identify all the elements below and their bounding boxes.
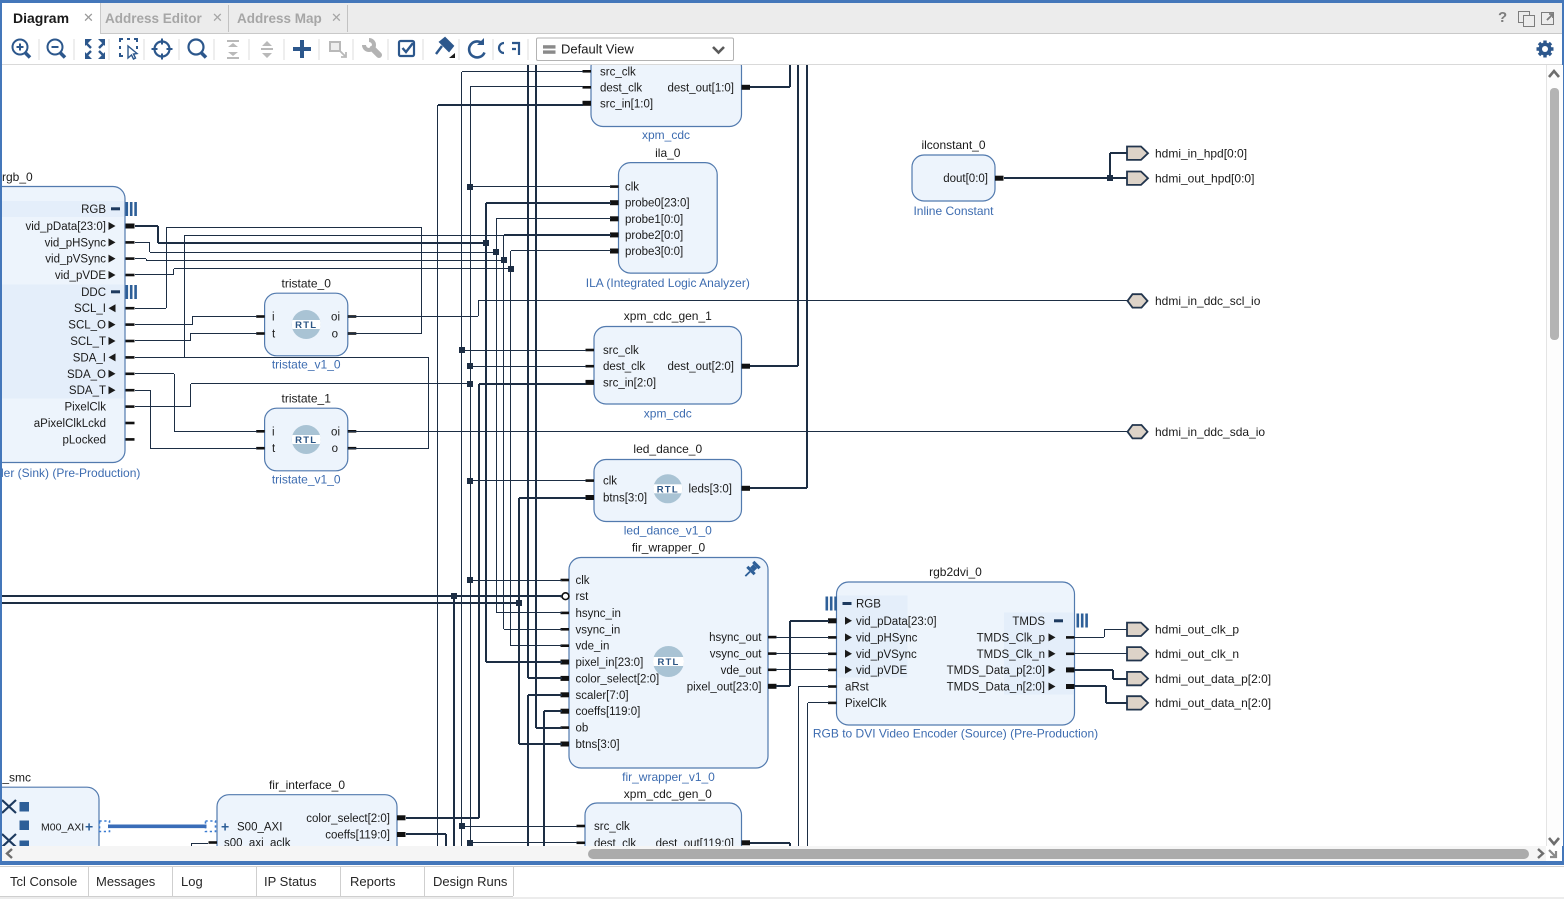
svg-text:src_in[1:0]: src_in[1:0] [600, 98, 653, 110]
svg-text:TMDS_Clk_n: TMDS_Clk_n [977, 649, 1045, 661]
net vsync_out -> vid_pVSync [776, 653, 829, 655]
svg-text:scaler[7:0]: scaler[7:0] [576, 690, 629, 702]
toolbar: zoom fit [85, 39, 105, 59]
net rst (horizontal from left) [0, 595, 562, 597]
svg-text:tristate_0: tristate_0 [282, 277, 332, 291]
tab Address Editor [105, 11, 202, 26]
svg-text:oi: oi [331, 426, 340, 438]
svg-text:vid_pVSync: vid_pVSync [45, 254, 106, 266]
svg-text:btns[3:0]: btns[3:0] [603, 493, 647, 505]
rgb2dvi_0 RGB expander [826, 597, 837, 611]
svg-text:2rgb_0: 2rgb_0 [2, 170, 33, 184]
svg-text:clk: clk [576, 575, 590, 587]
fir_wrapper_0 pin icon [742, 560, 762, 580]
junction pHSync [493, 249, 499, 255]
junction pData [483, 240, 489, 246]
svg-text:vid_pHSync: vid_pHSync [45, 237, 107, 249]
svg-text:btns[3:0]: btns[3:0] [576, 739, 620, 751]
net vid_pVDE / probe3 / vde_in [135, 274, 174, 276]
toolbar: customize (wrench) [361, 37, 379, 55]
junction PixelClk/dest_clk gen1 [467, 363, 473, 369]
net TMDS_Data_n -> hdmi_out_data_n [1074, 685, 1106, 687]
panel frame (blue focus border) [0, 0, 1564, 3]
net TMDS_Clk_p -> hdmi_out_clk_p [1074, 637, 1104, 639]
svg-text:SCL_O: SCL_O [68, 320, 106, 332]
net coeffs input (x544.5) [543, 711, 545, 846]
svg-text:xpm_cdc_gen_1: xpm_cdc_gen_1 [624, 309, 712, 323]
dvi2rgb_0 RGB expander [126, 202, 137, 216]
svg-text:RGB: RGB [856, 599, 881, 611]
port hdmi_in_hpd[0:0] [1127, 147, 1148, 160]
svg-text:dest_clk: dest_clk [600, 82, 642, 94]
shading band DDC group (dvi2rgb_0) [0, 285, 124, 399]
block rgb2dvi_0 [837, 582, 1075, 725]
net dest_out[1:0] (top xpm_cdc) [750, 86, 790, 88]
svg-text:RTL: RTL [295, 320, 317, 331]
svg-text:vid_pVDE: vid_pVDE [55, 270, 106, 282]
block dvi2rgb_0 [0, 187, 125, 463]
svg-text:coeffs[119:0]: coeffs[119:0] [325, 830, 390, 842]
svg-text:hdmi_out_data_p[2:0]: hdmi_out_data_p[2:0] [1155, 672, 1271, 686]
svg-text:tristate_v1_0: tristate_v1_0 [272, 358, 341, 372]
junction btns [516, 600, 522, 606]
svg-text:TMDS_Clk_p: TMDS_Clk_p [977, 632, 1045, 644]
svg-text:xpm_cdc_gen_0: xpm_cdc_gen_0 [624, 787, 712, 801]
svg-text:RGB to DVI Video Encoder (Sour: RGB to DVI Video Encoder (Source) (Pre-P… [813, 727, 1098, 741]
net rgb2dvi PixelClk (from bottom x807.5) [807, 703, 809, 846]
svg-text:tristate_1: tristate_1 [282, 392, 332, 406]
svg-text:rst: rst [576, 591, 590, 603]
net dest_out[2:0] (xpm_cdc_gen_1) up x798 [750, 365, 798, 367]
svg-text:vde_in: vde_in [576, 641, 610, 653]
svg-text:leds[3:0]: leds[3:0] [689, 483, 732, 495]
svg-text:color_select[2:0]: color_select[2:0] [306, 813, 390, 825]
svg-text:S00_AXI: S00_AXI [237, 821, 282, 833]
svg-text:SDA_T: SDA_T [69, 385, 106, 397]
svg-text:i: i [272, 426, 275, 438]
net SDA_T -> tristate_1 t [135, 390, 150, 392]
net hsync_out -> vid_pHSync [776, 637, 829, 639]
shading band TMDS group (rgb2dvi_0) [1004, 613, 1074, 695]
net hdmi_in_ddc_scl_io (tristate_0 oi) [348, 316, 478, 318]
net PixelClk (vertical x470.2) [470, 86, 472, 846]
dvi2rgb_0 DDC expander [126, 285, 137, 299]
svg-text:xpm_cdc: xpm_cdc [642, 128, 690, 142]
svg-text:rgb2dvi_0: rgb2dvi_0 [929, 565, 982, 579]
net color_select (fir_interface -> xpm_cdc_gen_1 src_in[2:0]) [406, 817, 479, 819]
svg-text:+: + [85, 819, 93, 835]
block xpm_cdc_gen_0 [585, 803, 742, 863]
svg-text:PixelClk: PixelClk [845, 698, 887, 710]
net SCL_T -> tristate_0 t [135, 340, 190, 342]
net hdmi_in_ddc_sda_io (tristate_1 oi) [348, 431, 1129, 433]
svg-text:probe3[0:0]: probe3[0:0] [625, 246, 683, 258]
svg-text:dest_out[2:0]: dest_out[2:0] [668, 361, 735, 373]
tab Address Map [237, 11, 322, 26]
svg-text:Default View: Default View [561, 42, 634, 57]
window icons top-right [1498, 9, 1507, 26]
toolbar: autofit/target [152, 39, 173, 60]
net coeffs output (fir_interface) [406, 833, 446, 835]
svg-text:dout[0:0]: dout[0:0] [943, 173, 988, 185]
toolbar: pin [436, 38, 455, 58]
block ilconstant_0 [912, 155, 995, 201]
net vid_pVSync / probe2 / vsync_in [135, 258, 146, 260]
net TMDS_Data_p -> hdmi_out_data_p [1074, 669, 1113, 671]
net src_in[1:0] vertical x437.5 [437, 105, 439, 846]
net ob (x536.5) [535, 65, 537, 728]
M00_AXI collapsed pin box [100, 821, 110, 832]
svg-text:vid_pHSync: vid_pHSync [856, 632, 918, 644]
svg-text:tristate_v1_0: tristate_v1_0 [272, 473, 341, 487]
svg-text:src_in[2:0]: src_in[2:0] [603, 377, 656, 389]
port hdmi_in_ddc_scl_io [1128, 294, 1148, 307]
svg-text:hdmi_in_ddc_sda_io: hdmi_in_ddc_sda_io [1155, 425, 1265, 439]
toolbar: zoom in [13, 40, 31, 58]
svg-text:ila_0: ila_0 [655, 146, 681, 160]
junction PixelClk/ila clk [467, 184, 473, 190]
net vid_pData / probe0 / pixel_in (thick) [135, 225, 158, 227]
svg-text:src_clk: src_clk [603, 345, 639, 357]
resize grip [1546, 846, 1562, 861]
svg-text:TMDS_Data_n[2:0]: TMDS_Data_n[2:0] [947, 682, 1045, 694]
svg-text:SCL_I: SCL_I [74, 303, 106, 315]
led_dance_0 RTL icon [653, 474, 682, 503]
svg-text:clk: clk [625, 182, 639, 194]
toolbar: collapse (disabled) [227, 41, 239, 58]
port hdmi_out_clk_p [1127, 623, 1148, 636]
junction clk/src_clk gen1 [459, 347, 465, 353]
svg-text:i: i [272, 312, 275, 324]
svg-text:pixel_out[23:0]: pixel_out[23:0] [687, 681, 762, 693]
junction PixelClk/fir clk [467, 577, 473, 583]
tab strip [2, 3, 1562, 33]
toolbar: add IP (+) [293, 40, 311, 58]
net SCL_O -> tristate_0 i [135, 324, 192, 326]
net SDA_O -> tristate_1 i [135, 373, 174, 375]
block tristate_0 [265, 293, 348, 356]
port hdmi_out_hpd[0:0] [1127, 172, 1148, 185]
block xpm_cdc_gen_1 [594, 327, 742, 405]
svg-text:+: + [221, 819, 229, 835]
net dest_out[119:0] (xpm_cdc_gen_0) [750, 842, 790, 844]
svg-text:vid_pVSync: vid_pVSync [856, 649, 917, 661]
junction clk/src_clk gen0 [459, 823, 465, 829]
net vde_out -> vid_pVDE [776, 669, 829, 671]
net s00_axi_aclk [192, 843, 208, 845]
svg-text:hsync_in: hsync_in [576, 608, 621, 620]
svg-text:hsync_out: hsync_out [709, 632, 762, 644]
junction PixelClk/led clk [467, 478, 473, 484]
svg-text:hdmi_in_hpd[0:0]: hdmi_in_hpd[0:0] [1155, 146, 1247, 160]
svg-text:hdmi_out_data_n[2:0]: hdmi_out_data_n[2:0] [1155, 696, 1271, 710]
svg-text:RTL: RTL [657, 484, 679, 495]
net M00_AXI -> S00_AXI (AXI interface connection) [108, 824, 207, 828]
svg-text:vid_pVDE: vid_pVDE [856, 665, 907, 677]
svg-text:pixel_in[23:0]: pixel_in[23:0] [576, 657, 644, 669]
svg-text:led_dance_v1_0: led_dance_v1_0 [624, 524, 712, 538]
svg-text:clk: clk [603, 476, 617, 488]
fir_wrapper_0 RTL icon [653, 646, 684, 677]
svg-text:o: o [332, 329, 338, 341]
toolbar: zoom to selection [120, 39, 137, 59]
svg-text:probe1[0:0]: probe1[0:0] [625, 214, 683, 226]
junction pVSync [501, 257, 507, 263]
net aRst (from bottom x798) [798, 686, 800, 846]
svg-text:o: o [332, 443, 338, 455]
svg-text:xpm_cdc: xpm_cdc [644, 407, 692, 421]
net clk (vertical x461.6) [461, 72, 463, 846]
svg-text:SDA_O: SDA_O [67, 369, 106, 381]
toolbar: view dropdown [537, 38, 734, 61]
svg-text:s00_axi_aclk: s00_axi_aclk [224, 838, 291, 847]
junction hpd [1107, 175, 1113, 181]
svg-text:vid_pData[23:0]: vid_pData[23:0] [25, 221, 106, 233]
svg-text:hdmi_out_hpd[0:0]: hdmi_out_hpd[0:0] [1155, 171, 1254, 185]
port hdmi_out_data_p[2:0] [1127, 672, 1148, 685]
svg-text:pLocked: pLocked [63, 434, 106, 446]
toolbar: settings gear [1537, 41, 1554, 58]
net dout -> hdmi hpd ports [1004, 177, 1110, 179]
svg-text:SDA_I: SDA_I [73, 352, 106, 364]
svg-text:RGB: RGB [81, 204, 106, 216]
svg-text:fir_wrapper_0: fir_wrapper_0 [632, 541, 706, 555]
tristate_0 RTL icon [292, 310, 321, 339]
svg-text:ob: ob [576, 723, 589, 735]
block ila_0 [619, 163, 718, 274]
junction PixelClk horiz [467, 381, 473, 387]
svg-text:M00_AXI: M00_AXI [41, 821, 84, 833]
tristate_1 RTL icon [292, 425, 321, 454]
port hdmi_out_clk_n [1127, 647, 1148, 660]
net TMDS_Clk_n -> hdmi_out_clk_n [1074, 653, 1128, 655]
toolbar: run connection automation (disabled) [330, 42, 346, 57]
toolbar [2, 34, 1562, 65]
svg-text:oi: oi [331, 312, 340, 324]
svg-text:der (Sink) (Pre-Production): der (Sink) (Pre-Production) [2, 466, 140, 480]
svg-text:src_clk: src_clk [594, 821, 630, 833]
toolbar: expand (disabled) [261, 41, 273, 58]
net SCL loop (tristate_0 o -> SCL_I) [135, 308, 166, 310]
svg-text:TMDS_Data_p[2:0]: TMDS_Data_p[2:0] [947, 665, 1045, 677]
svg-text:coeffs[119:0]: coeffs[119:0] [576, 706, 641, 718]
net pixel_out -> vid_pData [776, 685, 790, 687]
svg-text:dest_out[1:0]: dest_out[1:0] [668, 82, 735, 94]
block fir_interface_0 [217, 795, 397, 865]
svg-text:ILA (Integrated Logic Analyzer: ILA (Integrated Logic Analyzer) [586, 276, 750, 290]
svg-text:dest_clk: dest_clk [594, 838, 636, 846]
svg-text:hdmi_out_clk_n: hdmi_out_clk_n [1155, 647, 1239, 661]
svg-text:led_dance_0: led_dance_0 [633, 442, 702, 456]
svg-text:hdmi_in_ddc_scl_io: hdmi_in_ddc_scl_io [1155, 294, 1261, 308]
toolbar: zoom out [48, 40, 66, 58]
svg-text:PixelClk: PixelClk [64, 402, 106, 414]
svg-text:TMDS: TMDS [1012, 616, 1045, 628]
svg-text:axi_smc: axi_smc [2, 771, 31, 785]
svg-text:RTL: RTL [295, 435, 317, 446]
svg-text:vsync_in: vsync_in [576, 624, 621, 636]
toolbar: regenerate layout [499, 43, 519, 55]
svg-text:aRst: aRst [845, 682, 869, 694]
toolbar: search [189, 40, 207, 58]
shading band RGB group (rgb2dvi_0) [838, 596, 908, 678]
net scaler (x527.5 lower) [527, 695, 529, 846]
net vid_pHSync / probe1 / hsync_in [135, 242, 150, 244]
bottom tab bar [0, 865, 1564, 899]
active tab Diagram [2, 3, 101, 34]
svg-text:vsync_out: vsync_out [710, 649, 763, 661]
block fir_wrapper_0 [569, 558, 768, 769]
svg-text:vde_out: vde_out [721, 665, 763, 677]
svg-text:probe0[23:0]: probe0[23:0] [625, 198, 690, 210]
svg-text:dest_out[119:0]: dest_out[119:0] [656, 838, 734, 846]
horizontal scrollbar [2, 846, 1546, 861]
port hdmi_out_data_n[2:0] [1127, 696, 1148, 709]
block xpm_cdc_gen_2 [591, 55, 742, 127]
net btns [0, 602, 519, 604]
svg-text:dest_clk: dest_clk [603, 361, 645, 373]
svg-text:SCL_T: SCL_T [70, 336, 106, 348]
block axi_smc [0, 787, 99, 862]
svg-text:ilconstant_0: ilconstant_0 [921, 138, 985, 152]
svg-text:RTL: RTL [657, 657, 679, 668]
svg-text:vid_pData[23:0]: vid_pData[23:0] [856, 616, 937, 628]
svg-text:color_select[2:0]: color_select[2:0] [576, 673, 660, 685]
net SDA (tristate_1 o -> SDA_I, branch up) [348, 448, 429, 450]
svg-text:DDC: DDC [81, 287, 106, 299]
vertical scrollbar [1546, 65, 1563, 846]
svg-text:aPixelClkLckd: aPixelClkLckd [34, 418, 106, 430]
block tristate_1 [265, 408, 348, 471]
axi_smc crossed pins [2, 800, 16, 847]
svg-text:fir_interface_0: fir_interface_0 [269, 778, 345, 792]
toolbar: refresh [469, 38, 484, 57]
svg-text:src_clk: src_clk [600, 66, 636, 78]
junction pVDE [508, 266, 514, 272]
block led_dance_0 [594, 460, 742, 522]
svg-text:fir_wrapper_v1_0: fir_wrapper_v1_0 [622, 770, 715, 784]
svg-text:Inline Constant: Inline Constant [913, 204, 994, 218]
junction rst [451, 593, 457, 599]
svg-text:probe2[0:0]: probe2[0:0] [625, 230, 683, 242]
shading band RGB group (dvi2rgb_0) [0, 201, 124, 217]
junction PixelClk/dest_clk gen0 [467, 840, 473, 846]
svg-text:hdmi_out_clk_p: hdmi_out_clk_p [1155, 623, 1239, 637]
net color_select input (from top, x527.5) [527, 65, 529, 678]
rgb2dvi_0 TMDS expander [1077, 614, 1088, 628]
net leds[3:0] up x807 [750, 487, 807, 489]
port hdmi_in_ddc_sda_io [1128, 425, 1148, 438]
toolbar: validate design [399, 41, 414, 56]
S00_AXI collapsed pin box [206, 821, 216, 832]
